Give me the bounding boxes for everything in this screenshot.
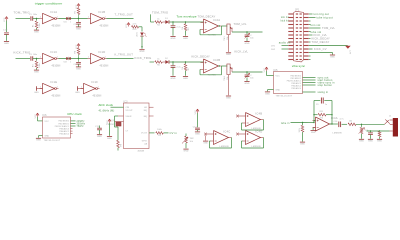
wire clock out 1 <box>71 120 76 122</box>
pin stub 5 <box>71 130 73 132</box>
junction left R11 <box>313 114 314 115</box>
ground spare input <box>205 135 207 140</box>
svg-text:2.2u: 2.2u <box>177 67 181 69</box>
svg-text:10k: 10k <box>190 141 193 143</box>
svg-text:75kHz: 75kHz <box>77 126 85 128</box>
diode D1 <box>163 21 166 23</box>
wire KICK_LVL <box>309 34 313 36</box>
svg-text:VCC: VCC <box>4 17 6 22</box>
svg-text:1: 1 <box>70 62 71 64</box>
wire to LED <box>139 26 143 28</box>
svg-text:PB1/MISO1: PB1/MISO1 <box>59 123 70 125</box>
wire vcc to IC6 <box>37 117 39 121</box>
connector pin pair 3 <box>288 20 293 21</box>
net label tube vol <box>309 31 311 33</box>
svg-text:GND: GND <box>183 151 188 153</box>
junction <box>78 58 79 59</box>
svg-text:CIN: CIN <box>126 107 130 109</box>
svg-text:PB0/MOSI0: PB0/MOSI0 <box>291 75 302 77</box>
svg-text:C9: C9 <box>316 104 319 106</box>
svg-text:SJ3: SJ3 <box>64 62 67 64</box>
pin stub 6 <box>71 133 73 135</box>
wire TOM_TRIG input <box>16 18 31 20</box>
svg-text:CH1: CH1 <box>271 46 275 48</box>
svg-text:R10: R10 <box>133 29 137 31</box>
svg-text:R3: R3 <box>158 135 161 137</box>
output wire <box>107 58 134 60</box>
svg-text:GND: GND <box>76 68 81 70</box>
resistor R15 out <box>379 130 380 131</box>
svg-text:1: 1 <box>40 17 41 19</box>
resistor R6 <box>155 61 163 64</box>
capacitor C3 input coupling <box>30 56 32 60</box>
connector pin pair 7 <box>288 34 293 35</box>
svg-text:GND: GND <box>330 56 335 58</box>
ground <box>34 29 39 31</box>
svg-text:GND: GND <box>244 83 249 85</box>
svg-text:1: 1 <box>88 17 89 19</box>
wire vcc cap <box>197 113 199 127</box>
capacitor C6 envelope <box>172 62 174 65</box>
svg-text:1: 1 <box>88 57 89 59</box>
ground <box>244 41 249 43</box>
svg-text:VCC: VCC <box>276 76 281 78</box>
svg-text:100k: 100k <box>39 23 41 28</box>
wire gnd IC6 <box>39 135 43 137</box>
LED LED1 <box>140 33 144 36</box>
capacitor C1P bypass <box>4 32 9 34</box>
capacitor C1 input coupling <box>30 16 32 20</box>
svg-text:C11: C11 <box>95 126 99 128</box>
supply VCC <box>265 67 267 69</box>
junction <box>78 18 79 19</box>
svg-text:CPU clock: CPU clock <box>67 112 82 116</box>
wire diode to opamp <box>169 21 203 23</box>
wire to inverter <box>33 18 40 20</box>
connector pin pair 14 <box>288 59 293 60</box>
wire input <box>150 61 155 63</box>
svg-text:4.7u: 4.7u <box>340 118 344 120</box>
svg-text:JP1: JP1 <box>295 9 300 11</box>
svg-text:GND: GND <box>75 92 80 94</box>
feedback wire <box>263 120 265 131</box>
feedback rail left <box>313 101 315 123</box>
connector pin pair 2 <box>288 17 293 18</box>
svg-text:GND: GND <box>170 38 175 40</box>
ground <box>76 26 81 28</box>
resistor R1 pulldown <box>36 19 38 21</box>
svg-text:10n: 10n <box>250 77 254 79</box>
svg-text:SJ1: SJ1 <box>64 22 67 24</box>
resistor R9 oscillator <box>117 140 120 148</box>
diode D2 <box>163 61 166 63</box>
svg-text:TOM_TRIG: TOM_TRIG <box>14 11 31 15</box>
ground <box>170 35 175 37</box>
wire start button <box>303 79 316 81</box>
ground <box>265 91 270 93</box>
connector pin pair 12 <box>288 52 293 53</box>
wire video sync in <box>303 82 316 84</box>
wire opamp out <box>330 123 338 125</box>
wire gnd IC5 <box>268 89 274 91</box>
connector pin pair 4 <box>288 24 293 25</box>
solder jumper SJ1 <box>66 17 68 20</box>
input cross <box>236 115 239 118</box>
ground <box>195 131 200 133</box>
svg-text:1M: 1M <box>182 26 184 29</box>
svg-text:VCC: VCC <box>45 121 50 123</box>
svg-text:GPIO: GPIO <box>142 141 148 143</box>
wire adc clock <box>111 106 124 108</box>
inverter IC1B <box>91 13 103 23</box>
svg-text:GND: GND <box>359 141 364 143</box>
ground <box>183 75 188 77</box>
svg-text:40106N: 40106N <box>100 26 109 28</box>
ground <box>97 134 102 136</box>
capacitor C9 feedback <box>320 98 322 104</box>
svg-text:R4: R4 <box>75 51 77 54</box>
junction <box>172 21 173 22</box>
svg-text:GND: GND <box>34 72 39 74</box>
svg-text:R3: R3 <box>33 64 35 67</box>
svg-text:trigger conditioner: trigger conditioner <box>35 2 63 6</box>
pin stub xtal1 <box>118 115 124 117</box>
wire swing in <box>303 91 316 93</box>
svg-text:10k: 10k <box>349 120 352 122</box>
svg-text:4.7k: 4.7k <box>132 24 136 26</box>
ground ic3 <box>109 125 111 136</box>
svg-text:GND: GND <box>203 143 208 145</box>
wire LED to ground <box>141 36 143 49</box>
wire TOM_LVL <box>309 27 321 29</box>
svg-text:TOM_TRIG: TOM_TRIG <box>152 11 169 15</box>
svg-text:VCOX: VCOX <box>141 133 147 135</box>
svg-text:GND: GND <box>311 132 316 134</box>
svg-text:1: 1 <box>70 22 71 24</box>
wire clock out 2 <box>71 122 76 124</box>
ground <box>330 54 335 56</box>
resistor R10 LED series <box>132 26 139 29</box>
svg-text:R2: R2 <box>75 11 77 14</box>
pin stub right 2 <box>149 115 154 117</box>
connector pin pair 10 <box>288 45 293 46</box>
svg-text:2: 2 <box>105 56 106 58</box>
audio jack J1 <box>393 118 398 137</box>
svg-text:GND: GND <box>300 144 305 146</box>
resistor R13 output <box>342 123 347 125</box>
pin stub right 1 <box>149 106 154 108</box>
input cross <box>236 133 239 136</box>
wire KICK_TRIG input <box>16 58 31 60</box>
svg-text:GND: GND <box>276 89 281 91</box>
ground <box>76 66 81 68</box>
supply VCC <box>36 113 38 115</box>
svg-text:GND: GND <box>4 43 9 45</box>
crystal Q1 <box>115 115 119 117</box>
jack switch contact <box>385 119 390 124</box>
connector pin pair 9 <box>288 41 293 42</box>
svg-text:1: 1 <box>40 57 41 59</box>
jack sleeve wire <box>367 130 390 132</box>
supply VCC <box>196 109 198 111</box>
trim capacitor <box>246 72 248 74</box>
resistor R3 pulldown <box>36 59 38 61</box>
feedback top wire right <box>324 100 332 102</box>
svg-text:24MHz: 24MHz <box>77 121 86 123</box>
wire ch2 <box>282 48 289 50</box>
junction <box>185 21 186 22</box>
potentiometer TM4 level slider <box>227 64 230 75</box>
resistor R5 discharge <box>185 22 187 24</box>
svg-text:R11: R11 <box>320 111 324 113</box>
svg-text:10n: 10n <box>250 37 254 39</box>
svg-text:C2: C2 <box>74 24 77 26</box>
wire clock out 3 <box>71 125 76 127</box>
capacitor C4 debounce <box>78 59 80 62</box>
capacitor C5 envelope <box>172 22 174 25</box>
svg-text:C3: C3 <box>29 54 32 56</box>
wire KICK_CV <box>309 48 313 50</box>
resistor R11 feedback <box>314 114 318 116</box>
ground <box>226 95 231 97</box>
svg-text:R7: R7 <box>188 68 190 71</box>
junction <box>36 58 37 59</box>
junction <box>246 31 247 32</box>
svg-text:KICK_TRIG: KICK_TRIG <box>14 51 31 55</box>
connector pin pair 11 <box>288 48 293 49</box>
svg-text:KICK_TRIG: KICK_TRIG <box>135 56 152 60</box>
svg-text:100n: 100n <box>33 14 37 16</box>
resistor R12 input gnd <box>302 123 304 126</box>
wire to jack <box>356 123 385 125</box>
ground <box>368 138 373 140</box>
svg-text:XCOUT: XCOUT <box>126 110 134 112</box>
svg-text:D2: D2 <box>165 58 168 60</box>
svg-text:TINY45-20-SOT: TINY45-20-SOT <box>44 140 61 142</box>
wire vcc ic3 <box>109 123 111 125</box>
junction <box>172 61 173 62</box>
wire to inverter <box>33 58 40 60</box>
svg-text:GND: GND <box>107 138 112 140</box>
wire tube trig out <box>309 17 316 19</box>
junction <box>246 71 247 72</box>
output wire <box>107 18 134 20</box>
connector pin pair 1 <box>288 13 293 14</box>
wire 12V supply <box>309 45 348 47</box>
wire opamp out <box>222 25 228 27</box>
op-amp IC2A <box>204 19 219 33</box>
feedback wire <box>221 26 223 35</box>
wire audio off <box>282 45 289 47</box>
svg-text:TM3: TM3 <box>224 37 226 41</box>
inverter IC1A <box>43 13 55 23</box>
connector pin pair 8 <box>288 38 293 39</box>
svg-text:LM358N: LM358N <box>333 132 342 134</box>
svg-text:GND: GND <box>195 133 200 135</box>
supply VCC <box>77 44 79 46</box>
supply arrow 12V <box>345 46 351 49</box>
svg-text:LM358N: LM358N <box>252 128 261 130</box>
svg-text:R9: R9 <box>120 144 122 147</box>
svg-text:C1P: C1P <box>3 30 8 32</box>
capacitor C11 bypass <box>97 127 102 129</box>
wire sync out <box>303 77 316 79</box>
svg-text:1n: 1n <box>325 104 327 106</box>
svg-text:4060N: 4060N <box>138 150 145 152</box>
svg-text:PB0/MOSI0: PB0/MOSI0 <box>59 121 70 123</box>
junction right R11 <box>331 114 332 115</box>
svg-text:VCC: VCC <box>195 110 197 115</box>
svg-text:GND: GND <box>377 141 382 143</box>
svg-text:GND: GND <box>183 78 188 80</box>
resistor R3 cv <box>156 132 164 135</box>
op-amp IC4D spare <box>246 131 261 145</box>
svg-text:12V: 12V <box>348 50 350 54</box>
wire diode to opamp <box>169 61 203 63</box>
svg-text:GND: GND <box>34 32 39 34</box>
solder jumper SJ3 <box>66 57 68 60</box>
svg-text:40106N: 40106N <box>52 26 61 28</box>
svg-text:C4: C4 <box>74 64 77 66</box>
svg-text:2.2u: 2.2u <box>177 27 181 29</box>
svg-text:2: 2 <box>105 16 106 18</box>
supply VCC for LED <box>127 23 129 25</box>
connector pin pair 6 <box>288 31 293 32</box>
op-amp IC4C spare <box>214 131 229 145</box>
svg-text:1: 1 <box>81 87 82 89</box>
svg-text:40106N: 40106N <box>52 66 61 68</box>
pin stub xtal2 <box>118 121 124 123</box>
junction <box>302 122 303 123</box>
supply VCC <box>77 4 79 6</box>
ground <box>36 137 41 139</box>
svg-text:GND: GND <box>265 93 270 95</box>
feedback wire <box>231 138 233 149</box>
svg-text:GND: GND <box>226 54 231 56</box>
ground <box>4 41 9 43</box>
potentiometer TM3 level slider <box>227 24 230 35</box>
feedback wire <box>263 138 265 149</box>
svg-text:LM358N: LM358N <box>220 146 229 148</box>
svg-text:tube in: tube in <box>281 122 290 125</box>
ground <box>244 81 249 83</box>
svg-text:100n: 100n <box>33 54 37 56</box>
junction <box>36 18 37 19</box>
ground <box>139 49 144 51</box>
svg-text:VCC: VCC <box>107 120 109 125</box>
svg-text:MQ: MQ <box>144 116 148 118</box>
resistor R4 pullup <box>77 48 80 55</box>
ground <box>377 138 382 140</box>
wire KICK_DECAY <box>309 38 311 40</box>
pin stub 4 <box>71 128 73 130</box>
svg-text:TM4: TM4 <box>224 77 226 81</box>
svg-text:300kHz: 300kHz <box>77 123 86 125</box>
svg-text:PB1/MISO1: PB1/MISO1 <box>291 78 302 80</box>
op-amp IC4A mixer <box>316 117 330 131</box>
svg-text:XGDR: XGDR <box>126 116 132 118</box>
wire into minus input <box>308 122 315 124</box>
svg-text:GND: GND <box>170 78 175 80</box>
svg-text:1k: 1k <box>157 58 159 60</box>
inverter IC1D <box>91 53 103 63</box>
ground <box>34 69 39 71</box>
wire vcc to C1P <box>6 21 8 33</box>
capacitor C12 bypass <box>195 127 200 129</box>
wire opamp out <box>222 65 228 67</box>
svg-text:C10: C10 <box>334 121 338 123</box>
svg-text:40106N: 40106N <box>93 96 102 98</box>
connector pin pair 13 <box>288 55 293 56</box>
svg-text:CH2: CH2 <box>271 49 275 51</box>
wiper wire <box>232 71 263 73</box>
junction <box>185 61 186 62</box>
svg-text:C1: C1 <box>29 14 32 16</box>
svg-text:MQ: MQ <box>144 110 148 112</box>
op-amp IC2B <box>204 59 219 73</box>
wire TOM_DECAY <box>309 41 311 43</box>
wire vcox out <box>149 132 155 134</box>
svg-text:kick lvl: kick lvl <box>281 20 289 22</box>
inverter IC1F unused <box>78 88 84 90</box>
wire inverter1 to inverter2 <box>59 18 88 20</box>
wiper wire <box>232 31 263 33</box>
svg-text:1k: 1k <box>157 18 159 20</box>
svg-text:GND: GND <box>36 140 41 142</box>
svg-text:GND: GND <box>76 28 81 30</box>
wire stub 14 <box>309 59 311 61</box>
capacitor C10 output <box>338 122 340 128</box>
svg-text:2: 2 <box>57 86 58 88</box>
connector pin pair 5 <box>288 27 293 28</box>
svg-text:100k: 100k <box>157 129 162 131</box>
capacitor C2 debounce <box>78 19 80 22</box>
svg-text:Tom envelope: Tom envelope <box>177 14 197 18</box>
inverter IC1E unused <box>37 88 43 90</box>
wire to cv in <box>164 132 169 134</box>
svg-text:VCC: VCC <box>35 114 37 119</box>
svg-text:VCC: VCC <box>264 68 266 73</box>
resistor R7 discharge <box>185 62 187 64</box>
svg-text:GND: GND <box>45 135 50 137</box>
feedback wire <box>221 66 223 75</box>
wire input <box>150 14 152 22</box>
input cross <box>204 133 207 136</box>
wire vcc to IC5 <box>266 71 268 76</box>
svg-text:GND: GND <box>226 97 231 99</box>
svg-text:D1: D1 <box>165 18 168 20</box>
inverter IC1C <box>43 53 55 63</box>
svg-text:GND: GND <box>97 136 102 138</box>
svg-text:1: 1 <box>40 87 41 89</box>
svg-text:2: 2 <box>57 16 58 18</box>
trim capacitor <box>246 32 248 34</box>
svg-text:R1: R1 <box>33 24 35 27</box>
svg-text:TM2: TM2 <box>190 138 194 140</box>
wire tube in <box>291 122 308 124</box>
op-amp IC4B spare <box>246 113 261 127</box>
svg-text:VCC: VCC <box>126 23 128 28</box>
wire stub 13 <box>309 55 311 57</box>
ground <box>300 141 305 143</box>
ground <box>359 138 364 140</box>
svg-text:Q1: Q1 <box>111 120 114 122</box>
wire stop button <box>303 84 316 86</box>
svg-text:2: 2 <box>98 86 99 88</box>
capacitor C13 out <box>370 131 372 132</box>
pot R14 output level <box>361 124 363 127</box>
net label tom vol <box>309 24 311 26</box>
